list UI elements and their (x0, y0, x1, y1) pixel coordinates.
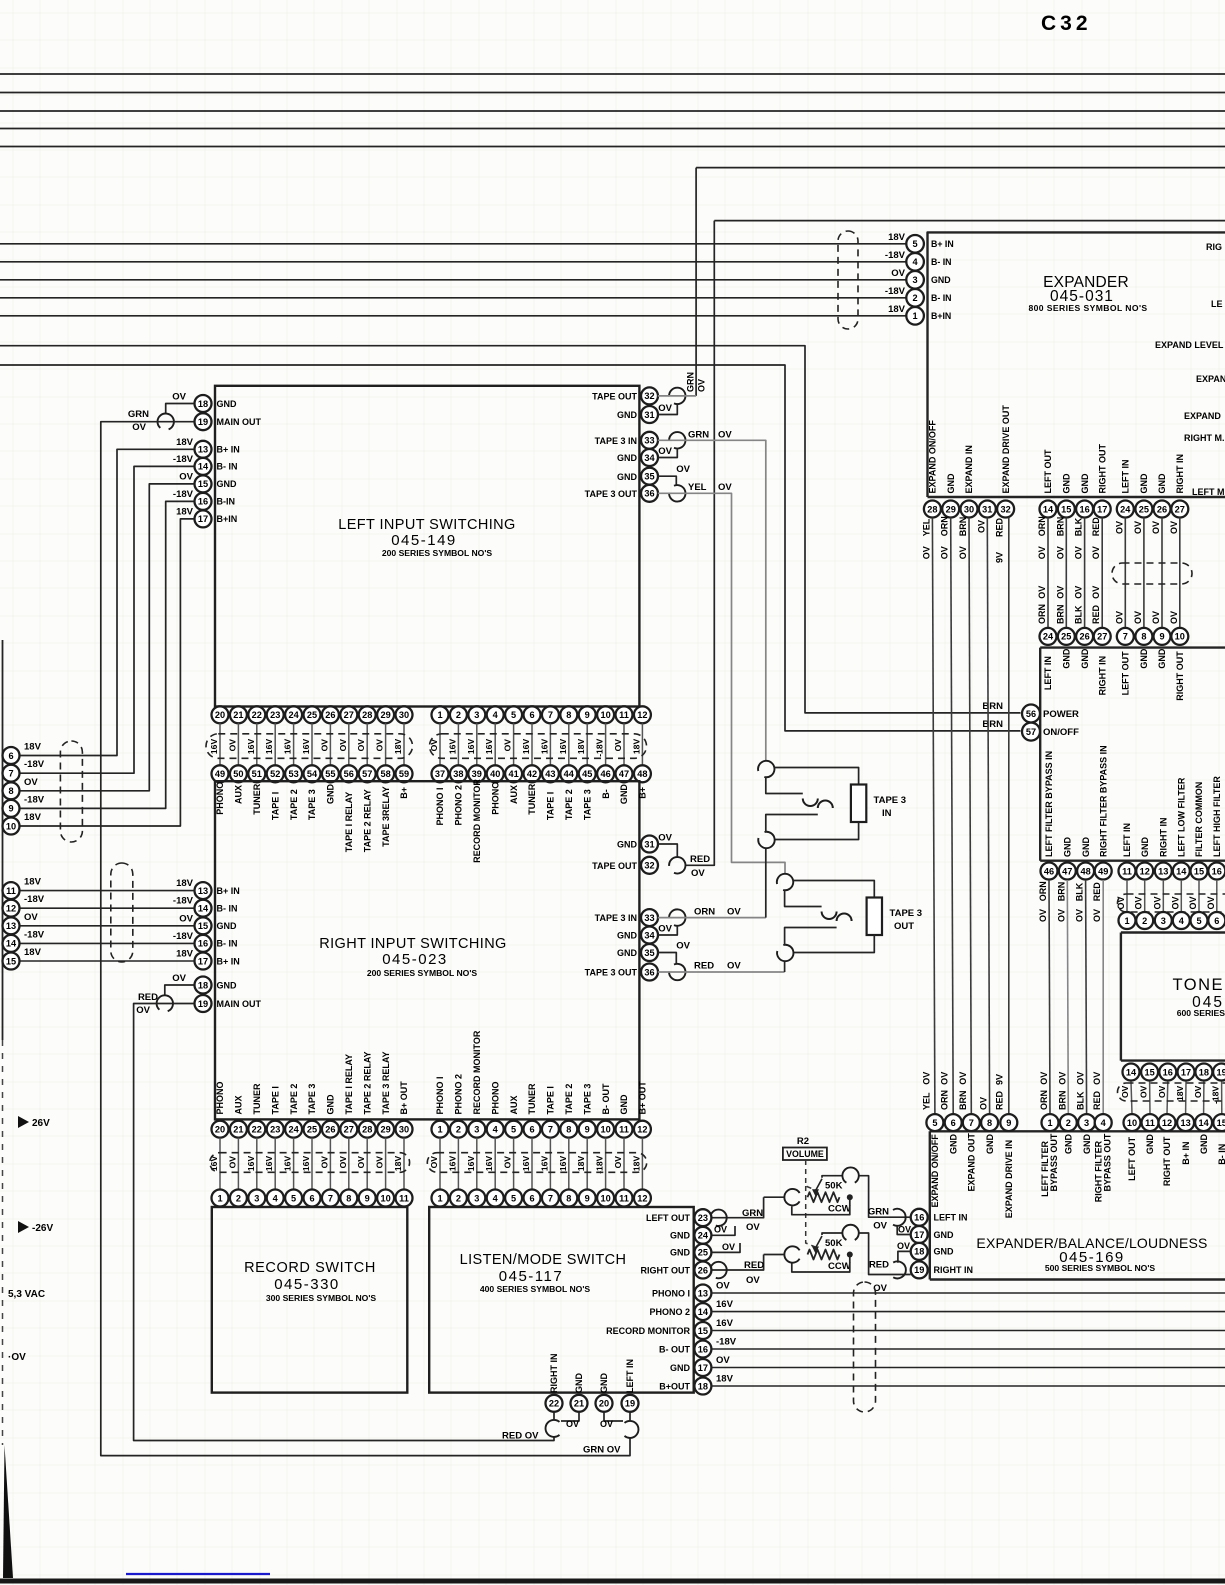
svg-text:045-117: 045-117 (499, 1268, 563, 1285)
svg-text:-18V: -18V (24, 929, 45, 940)
svg-text:7: 7 (548, 1193, 553, 1203)
svg-text:OV: OV (718, 430, 732, 441)
connector right tape out (669, 857, 685, 873)
svg-text:16: 16 (198, 939, 208, 949)
svg-text:5,3 VAC: 5,3 VAC (8, 1289, 45, 1300)
wire expander to filter pin 26 (1084, 518, 1086, 628)
pin 23 bottom row (267, 1121, 284, 1138)
svg-text:PHONO 2: PHONO 2 (454, 785, 464, 826)
svg-text:OV: OV (1133, 611, 1143, 624)
svg-text:18: 18 (198, 399, 208, 409)
svg-text:39: 39 (472, 769, 482, 779)
connector tape3 in left (669, 432, 685, 448)
svg-text:GND: GND (670, 1248, 691, 1258)
svg-text:-18V: -18V (173, 896, 194, 907)
svg-text:50: 50 (233, 769, 243, 779)
wire pin 33 to tape3in jack bottom (658, 917, 766, 919)
svg-text:16V: 16V (447, 739, 457, 755)
svg-text:10: 10 (1127, 1118, 1137, 1128)
svg-text:5: 5 (932, 1118, 937, 1128)
wire edge pin 14 to pin 16 (20, 942, 195, 944)
svg-text:GND: GND (1062, 648, 1072, 669)
svg-text:32: 32 (1000, 504, 1010, 514)
svg-text:33: 33 (644, 436, 654, 446)
svg-text:OV: OV (429, 1156, 439, 1169)
svg-text:1: 1 (437, 710, 442, 720)
svg-text:LEFT IN: LEFT IN (625, 1359, 635, 1393)
svg-text:OV: OV (1151, 521, 1161, 534)
svg-text:3: 3 (254, 1193, 259, 1203)
listen pin 15 (694, 1322, 711, 1339)
svg-text:PHONO: PHONO (215, 1081, 225, 1114)
block EXPANDER/BALANCE/LOUDNESS 045-169 (929, 1131, 931, 1279)
pin 2 row (450, 706, 467, 723)
svg-text:22: 22 (549, 1399, 559, 1409)
wire TAPE 3 OUT ring stub 2 (785, 928, 837, 946)
svg-text:16V: 16V (301, 1156, 311, 1172)
svg-text:ORN: ORN (694, 907, 715, 918)
wire tone pin 19 to expander/balance pin 15 (1221, 1082, 1223, 1115)
svg-text:TUNER: TUNER (527, 1083, 537, 1114)
pin 3 record switch (248, 1190, 265, 1207)
svg-text:59: 59 (399, 769, 409, 779)
svg-text:200 SERIES SYMBOL NO'S: 200 SERIES SYMBOL NO'S (367, 968, 478, 978)
svg-text:RIGHT M.: RIGHT M. (1184, 433, 1225, 443)
svg-text:6: 6 (309, 1193, 314, 1203)
svg-text:B+ IN: B+ IN (217, 445, 240, 455)
connector pin 23 (710, 1210, 726, 1226)
cable oval listen harness (854, 1282, 876, 1412)
wire listen pin 24 shield stub (711, 1226, 735, 1235)
svg-text:R2: R2 (797, 1136, 809, 1147)
svg-text:TAPE 2 RELAY: TAPE 2 RELAY (362, 789, 372, 852)
pin 11 row (616, 706, 633, 723)
cable bus capsule left (206, 734, 413, 759)
svg-text:10: 10 (380, 1193, 390, 1203)
label 26V supply arrow (18, 1116, 29, 1128)
svg-text:EXPAND LEVEL: EXPAND LEVEL (1155, 340, 1224, 350)
listen pin 17 (694, 1359, 711, 1376)
expander/balance pin 7 (963, 1114, 980, 1131)
svg-text:045-149: 045-149 (391, 532, 457, 549)
pin 21 bottom row (230, 1121, 247, 1138)
tone pin 2 (1136, 912, 1153, 929)
expander/balance pin 13 (1177, 1114, 1194, 1131)
listen pin 23 (694, 1209, 711, 1226)
svg-text:GND: GND (617, 948, 638, 958)
svg-text:GND: GND (1080, 648, 1090, 669)
svg-text:23: 23 (270, 1125, 280, 1135)
svg-text:B+ IN: B+ IN (1181, 1141, 1191, 1164)
svg-text:42: 42 (527, 769, 537, 779)
svg-text:GND: GND (948, 1134, 958, 1155)
svg-text:LEFT OUT: LEFT OUT (1121, 651, 1131, 695)
svg-text:10: 10 (600, 1125, 610, 1135)
svg-text:OV: OV (658, 446, 672, 457)
wire stub (237, 1138, 239, 1190)
svg-text:16V: 16V (558, 1156, 568, 1172)
svg-text:RIGHT OUT: RIGHT OUT (1162, 1136, 1172, 1186)
svg-text:16V: 16V (264, 739, 274, 755)
svg-text:RIGHT IN: RIGHT IN (1097, 656, 1107, 696)
svg-text:LE: LE (1211, 299, 1223, 309)
wire stub (531, 1138, 533, 1190)
wire pin 18 shield (165, 985, 195, 996)
expander pin 15 (1058, 501, 1075, 518)
wire expander pin 29 to expander/balance pin 6 (951, 518, 954, 1115)
expander/balance pin 2 (1060, 1114, 1077, 1131)
svg-text:PHONO 2: PHONO 2 (454, 1074, 464, 1115)
svg-text:13: 13 (198, 445, 208, 455)
wire pin 31 shield (658, 844, 678, 857)
svg-text:GND: GND (617, 840, 638, 850)
svg-text:GRN: GRN (688, 430, 709, 441)
svg-text:GND: GND (1062, 473, 1072, 494)
block TONE 045-... (1120, 933, 1122, 1061)
svg-text:OV: OV (613, 1156, 623, 1169)
filter pin 49 (1095, 863, 1112, 880)
tone pin 3 (1155, 912, 1172, 929)
pin 21 row (230, 706, 247, 723)
wire expander to filter pin 9 (1161, 518, 1163, 628)
svg-text:OV: OV (958, 546, 968, 559)
svg-text:44: 44 (564, 769, 575, 779)
wire right tape-out run to right edge (714, 220, 1225, 222)
svg-text:ON/OFF: ON/OFF (1043, 727, 1079, 738)
pin 4 listen switch (487, 1190, 504, 1207)
svg-text:56: 56 (344, 769, 354, 779)
svg-text:16: 16 (1212, 866, 1222, 876)
svg-text:GND: GND (617, 472, 638, 482)
svg-text:16: 16 (1079, 504, 1089, 514)
cable oval edge harness 1 (60, 741, 82, 842)
pin 5 bottom row (505, 1121, 522, 1138)
wire pin 17 shield (897, 1226, 911, 1235)
svg-text:TAPE 2: TAPE 2 (564, 789, 574, 820)
right pin 31 (641, 406, 658, 423)
svg-text:26: 26 (325, 1125, 335, 1135)
pin 48 row (634, 765, 651, 782)
cable oval expander input harness (838, 231, 858, 329)
svg-text:OV: OV (172, 973, 186, 984)
svg-text:15: 15 (1144, 1067, 1154, 1077)
svg-text:RED: RED (690, 854, 710, 865)
connector right tape3 out (669, 964, 685, 980)
svg-text:12: 12 (1140, 866, 1150, 876)
edge pin 7 (3, 765, 20, 782)
svg-text:29: 29 (380, 1125, 390, 1135)
svg-text:YEL: YEL (921, 1092, 931, 1110)
svg-text:RECORD MONITOR: RECORD MONITOR (472, 1030, 482, 1114)
pin 58 row (377, 765, 394, 782)
connector TAPE 3 OUT top (777, 874, 793, 890)
svg-text:ORN: ORN (1037, 604, 1047, 624)
svg-text:1: 1 (437, 1125, 442, 1135)
svg-text:6: 6 (529, 1125, 534, 1135)
pin 28 bottom row (359, 1121, 376, 1138)
tone pin 16 (1159, 1064, 1176, 1081)
svg-text:PHONO I: PHONO I (435, 787, 445, 825)
svg-text:GND: GND (1140, 837, 1150, 858)
contact cup TAPE 3 IN b (818, 801, 833, 809)
svg-text:6: 6 (951, 1118, 956, 1128)
pin 9 bottom row (579, 1121, 596, 1138)
svg-text:31: 31 (982, 504, 992, 514)
svg-text:EXPAND: EXPAND (1184, 411, 1221, 421)
svg-text:EXPAN: EXPAN (1196, 374, 1225, 384)
wire stub pin 5 (513, 723, 515, 765)
pin 10 bottom row (597, 1121, 614, 1138)
expander pin 31 (979, 501, 996, 518)
left pin 15 (195, 475, 212, 492)
wire stub pin 21 (237, 723, 239, 765)
pin 4 row (487, 706, 504, 723)
pin 3 bottom row (468, 1121, 485, 1138)
block LISTEN/MODE SWITCH 045-117 (429, 1207, 694, 1393)
wire supply B3 to expander pin 3 (0, 279, 906, 281)
svg-text:35: 35 (644, 948, 654, 958)
wire stub pin 3 (476, 723, 478, 765)
svg-text:LEFT M: LEFT M (1192, 487, 1225, 497)
svg-text:52: 52 (270, 769, 280, 779)
svg-text:OV: OV (1157, 1085, 1167, 1098)
svg-text:LEFT LOW FILTER: LEFT LOW FILTER (1177, 777, 1187, 857)
wire listen pin to right edge OV (711, 1367, 1225, 1369)
pin 25 bottom row (304, 1121, 321, 1138)
svg-text:26: 26 (1079, 632, 1089, 642)
right pin 34 (641, 927, 658, 944)
svg-text:RIGHT IN: RIGHT IN (1175, 454, 1185, 494)
svg-text:BYPASS OUT: BYPASS OUT (1102, 1133, 1112, 1191)
svg-text:26V: 26V (32, 1118, 50, 1129)
svg-text:OV: OV (873, 1221, 887, 1232)
svg-text:OV: OV (1114, 521, 1124, 534)
wire stub pin 11 (623, 723, 625, 765)
svg-text:B+ IN: B+ IN (217, 886, 240, 896)
cable bus tone input (1118, 894, 1225, 912)
svg-text:13: 13 (198, 886, 208, 896)
svg-text:-18V: -18V (173, 454, 194, 465)
wire expander pin 32 to expander/balance pin 9 (1008, 518, 1010, 1115)
pin 29 row (377, 706, 394, 723)
wire supply B4 to expander pin 2 (0, 297, 906, 299)
svg-text:OV: OV (1037, 546, 1047, 559)
svg-text:49: 49 (215, 769, 225, 779)
svg-text:GRN: GRN (128, 409, 149, 420)
svg-text:32: 32 (644, 391, 654, 401)
pin 11 listen switch (616, 1190, 633, 1207)
svg-text:58: 58 (380, 769, 390, 779)
svg-text:13: 13 (6, 921, 16, 931)
wire stub pin 4 (494, 723, 496, 765)
connector listen pin 22 bottom (546, 1420, 560, 1437)
svg-text:RED: RED (1091, 604, 1101, 624)
wire pin 17 to edge pin 10 (20, 519, 195, 826)
svg-text:TAPE OUT: TAPE OUT (592, 392, 637, 402)
svg-text:18V: 18V (176, 506, 194, 517)
expander pin 3 (906, 271, 924, 289)
svg-text:OV: OV (921, 1072, 931, 1085)
svg-text:LEFT IN: LEFT IN (934, 1213, 968, 1223)
svg-text:OV: OV (24, 777, 38, 788)
svg-text:OV: OV (718, 482, 732, 493)
wire pot upper ccw return (792, 1197, 850, 1215)
svg-text:LEFT IN: LEFT IN (1121, 460, 1131, 494)
svg-text:OV: OV (503, 1156, 513, 1169)
svg-text:OV: OV (691, 868, 705, 879)
pin 20 row (212, 706, 229, 723)
svg-text:OV: OV (1139, 1085, 1149, 1098)
cable bus capsule bottom left (210, 1153, 410, 1173)
svg-text:GND: GND (1199, 1134, 1209, 1155)
svg-text:16V: 16V (264, 1156, 274, 1172)
svg-text:-18V: -18V (24, 794, 45, 805)
svg-text:B- IN: B- IN (931, 293, 952, 303)
svg-text:9: 9 (585, 1125, 590, 1135)
svg-text:12: 12 (637, 1125, 647, 1135)
connector pot upper left (784, 1189, 799, 1205)
svg-text:16: 16 (698, 1344, 708, 1354)
svg-text:11: 11 (399, 1193, 409, 1203)
wire stub pin 12 (641, 723, 643, 765)
svg-text:36: 36 (644, 489, 654, 499)
svg-text:33: 33 (644, 913, 654, 923)
svg-text:OV: OV (976, 520, 986, 533)
wire expander to filter pin 10 (1179, 518, 1181, 628)
filter pin 24 (1040, 628, 1057, 645)
svg-text:16V: 16V (484, 739, 494, 755)
pin 39 row (468, 765, 485, 782)
svg-text:8: 8 (1141, 632, 1146, 642)
svg-text:400 SERIES SYMBOL NO'S: 400 SERIES SYMBOL NO'S (480, 1284, 591, 1294)
left pin 14 (195, 458, 212, 475)
svg-text:18V: 18V (888, 232, 906, 243)
listen pin 14 (694, 1303, 711, 1320)
wire tone pin 16 to expander/balance pin 12 (1166, 1082, 1169, 1115)
svg-text:16V: 16V (301, 739, 311, 755)
right block pin 14 (195, 900, 212, 917)
svg-text:1: 1 (913, 311, 918, 321)
svg-text:TAPE I: TAPE I (270, 792, 280, 820)
pin 2 record switch (230, 1190, 247, 1207)
svg-text:OV: OV (1193, 1085, 1203, 1098)
wire B7 to tone pin 57 ON/OFF (0, 365, 1021, 731)
svg-text:12: 12 (637, 710, 647, 720)
svg-text:14: 14 (198, 462, 209, 472)
tone pin 1 (1119, 912, 1136, 929)
cable bus capsule right (430, 734, 647, 759)
svg-text:12: 12 (637, 1193, 647, 1203)
tone pin 19 (1213, 1064, 1225, 1081)
pin 54 row (304, 765, 321, 782)
wire TAPE 3 IN tip (775, 768, 859, 785)
svg-text:045-023: 045-023 (382, 951, 448, 968)
pin 50 row (230, 765, 247, 782)
svg-text:3: 3 (913, 275, 918, 285)
pin 41 row (505, 765, 522, 782)
svg-text:21: 21 (233, 710, 243, 720)
pin 2 listen switch (450, 1190, 467, 1207)
svg-text:BLK: BLK (1074, 517, 1084, 536)
svg-text:41: 41 (508, 769, 518, 779)
svg-text:30: 30 (399, 1125, 409, 1135)
wire pot upper to expander/balance (859, 1176, 911, 1218)
wire stub (385, 1138, 387, 1190)
edge pin 12 (3, 900, 20, 917)
wire stub pin 7 (549, 723, 551, 765)
pin 1 record switch (212, 1190, 229, 1207)
svg-text:OV: OV (1055, 586, 1065, 599)
svg-text:4: 4 (493, 1193, 499, 1203)
svg-text:5: 5 (291, 1193, 296, 1203)
wire filter pin 11 to tone pin 1 (1126, 880, 1128, 911)
wire stub (439, 1138, 441, 1190)
svg-text:32: 32 (644, 861, 654, 871)
expander pin 2 (906, 289, 924, 307)
svg-text:4: 4 (913, 257, 919, 267)
right pin 34 (641, 449, 658, 466)
edge pin 10 (3, 818, 20, 835)
svg-text:AUX: AUX (234, 785, 244, 804)
svg-text:TAPE 2: TAPE 2 (564, 1084, 574, 1115)
svg-text:16V: 16V (716, 1299, 734, 1310)
svg-text:B- IN: B- IN (931, 257, 952, 267)
svg-text:LEFT OUT: LEFT OUT (1127, 1136, 1137, 1180)
edge pin 8 (3, 782, 20, 799)
svg-text:11: 11 (1122, 866, 1132, 876)
svg-text:46: 46 (1044, 866, 1054, 876)
wire pot lower ccw return (792, 1255, 850, 1273)
svg-text:18: 18 (914, 1247, 924, 1257)
left pin 19 (195, 413, 212, 430)
svg-text:B-IN: B-IN (217, 497, 236, 507)
svg-text:17: 17 (1097, 504, 1107, 514)
svg-text:GRN: GRN (868, 1207, 889, 1218)
right pin 31 (641, 836, 658, 853)
svg-text:OV: OV (746, 1275, 760, 1286)
svg-text:OV: OV (503, 739, 513, 752)
svg-text:PHONO 2: PHONO 2 (649, 1307, 690, 1317)
svg-text:4: 4 (493, 1125, 499, 1135)
right pin 35 (641, 468, 658, 485)
svg-text:TONE: TONE (1172, 976, 1224, 994)
tone pin 6 (1208, 912, 1225, 929)
expander/balance pin 14 (1195, 1114, 1212, 1131)
pin 1 bottom row (432, 1121, 449, 1138)
svg-text:-18V: -18V (885, 286, 906, 297)
cable bus capsule bottom right (427, 1153, 646, 1173)
wire stub pin 30 (403, 723, 405, 765)
svg-text:20: 20 (599, 1399, 609, 1409)
wire pin 14 to edge pin 7 (20, 466, 195, 773)
svg-text:TAPE 3: TAPE 3 (307, 789, 317, 820)
listen pin 26 (694, 1262, 711, 1279)
connector pot upper top (842, 1167, 858, 1182)
wire expander pin 31 to expander/balance pin 8 (987, 518, 989, 1115)
svg-text:16V: 16V (539, 1156, 549, 1172)
jack body TAPE 3 IN (851, 785, 866, 823)
expander/balance pin 1 (1042, 1114, 1059, 1131)
svg-text:TAPE 3: TAPE 3 (582, 789, 592, 820)
svg-text:6: 6 (529, 710, 534, 720)
svg-text:47: 47 (619, 769, 629, 779)
pin 26 bottom row (322, 1121, 339, 1138)
svg-text:9V: 9V (995, 1074, 1005, 1085)
svg-text:ORN: ORN (940, 516, 950, 536)
svg-text:10: 10 (600, 1193, 610, 1203)
svg-text:LEFT OUT: LEFT OUT (646, 1213, 690, 1223)
pin 25 row (304, 706, 321, 723)
